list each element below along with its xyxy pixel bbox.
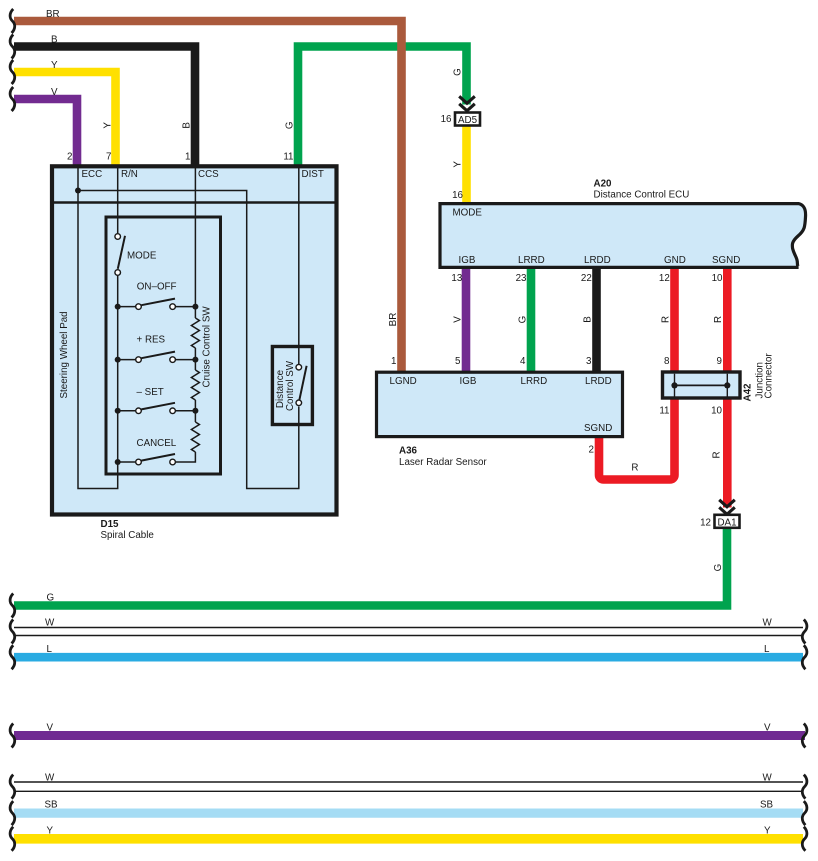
svg-text:W: W <box>45 773 55 784</box>
node junction dot ECC <box>75 188 81 194</box>
svg-text:LRDD: LRDD <box>585 376 612 387</box>
chevron arrows DA1 <box>719 500 735 515</box>
connector D15 steering wheel pad box <box>52 166 337 514</box>
connector AD5 box <box>455 113 480 126</box>
wire -SET to rail <box>176 410 196 412</box>
switch -SET contact left <box>118 410 139 412</box>
wire resistor3 to CANCEL contact <box>176 452 195 462</box>
svg-text:LRRD: LRRD <box>518 255 545 266</box>
wire R/N pin7 to MODE switch <box>117 166 119 233</box>
svg-text:G: G <box>713 564 724 572</box>
squiggle Y2 left <box>10 827 15 851</box>
svg-text:– SET: – SET <box>137 387 164 398</box>
wire rail segment <box>194 400 196 422</box>
A42 junction bus line <box>675 384 728 386</box>
svg-text:B: B <box>583 316 594 323</box>
squiggle L left <box>10 645 15 669</box>
connector DA1 box <box>715 515 740 528</box>
svg-text:BR: BR <box>388 313 399 327</box>
switch CANCEL contact right <box>170 459 176 465</box>
wire R ECU-SGND-to-A42 <box>723 268 732 373</box>
svg-text:CCS: CCS <box>198 169 219 180</box>
svg-text:L: L <box>764 644 770 655</box>
svg-text:Control SW: Control SW <box>285 360 296 411</box>
switch CANCEL dot left <box>115 459 121 465</box>
svg-text:D15: D15 <box>101 519 120 530</box>
svg-text:B: B <box>182 122 193 129</box>
wire Y lower <box>14 834 803 844</box>
svg-text:5: 5 <box>455 356 461 367</box>
A42 junction dot left <box>671 382 677 388</box>
cruise control SW box <box>106 217 221 474</box>
resistor R3 <box>191 422 199 452</box>
svg-text:AD5: AD5 <box>458 115 478 126</box>
wire B <box>14 47 195 167</box>
svg-text:A36: A36 <box>399 446 418 457</box>
switch +RES contact right <box>170 357 176 363</box>
switch ON-OFF dot left <box>115 304 121 310</box>
wire G ECU-to-A36 <box>527 268 536 373</box>
svg-text:DIST: DIST <box>302 169 324 180</box>
squiggle W1 right <box>802 620 807 644</box>
wire W lower line1 <box>14 781 803 783</box>
switch -SET lever <box>141 403 175 410</box>
svg-text:R: R <box>712 451 723 458</box>
distance control SW box <box>272 347 312 425</box>
switch ON-OFF contact right <box>170 304 176 310</box>
svg-text:Y: Y <box>51 60 58 71</box>
svg-text:G: G <box>47 593 55 604</box>
wire switch common rail <box>117 276 119 462</box>
squiggle V2 left <box>10 724 15 748</box>
squiggle W2 right <box>802 775 807 799</box>
wire L <box>14 653 803 662</box>
wire CCS pin1 to ON-OFF <box>194 166 196 318</box>
node ON-OFF rail dot <box>192 304 198 310</box>
wire SB <box>14 808 803 817</box>
svg-text:SB: SB <box>760 800 774 811</box>
svg-text:1: 1 <box>391 356 396 367</box>
wire R ECU-GND-to-A42 <box>670 268 679 373</box>
wire DIST pin11 internal <box>298 166 300 364</box>
wire ON-OFF to rail <box>176 306 196 308</box>
wire G DIST-to-AD5 <box>298 47 467 167</box>
svg-text:10: 10 <box>711 406 722 417</box>
node -SET rail dot <box>192 408 198 414</box>
switch CANCEL contact left <box>118 461 139 463</box>
svg-text:LRRD: LRRD <box>521 376 548 387</box>
switch DIST lever <box>299 366 306 401</box>
svg-text:W: W <box>763 618 773 629</box>
svg-text:V: V <box>51 87 58 98</box>
junction connector A42 box <box>663 372 741 398</box>
svg-text:2: 2 <box>67 152 72 163</box>
switch MODE contact bottom <box>115 270 121 276</box>
wire W upper line2 <box>14 635 803 637</box>
svg-text:Spiral Cable: Spiral Cable <box>101 530 155 541</box>
switch ON-OFF lever <box>141 299 175 306</box>
A42 junction dot right <box>724 382 730 388</box>
svg-text:2: 2 <box>589 445 594 456</box>
squiggle SB left <box>10 801 15 825</box>
wire V <box>14 99 77 166</box>
svg-text:Distance Control ECU: Distance Control ECU <box>594 190 690 201</box>
sensor A36 box <box>377 372 623 436</box>
svg-text:Y: Y <box>764 826 771 837</box>
svg-text:LRDD: LRDD <box>584 255 611 266</box>
squiggle B left <box>10 35 15 59</box>
squiggle V left <box>10 87 15 111</box>
svg-text:GND: GND <box>664 255 686 266</box>
svg-text:W: W <box>763 773 773 784</box>
chevron arrows AD5 <box>459 96 475 111</box>
A42 inner wire line pin8-11 <box>674 374 676 399</box>
node +RES rail dot <box>192 357 198 363</box>
svg-text:11: 11 <box>283 152 293 163</box>
wire W lower line2 <box>14 790 803 792</box>
pad terminal separator line <box>52 201 337 204</box>
svg-text:V: V <box>453 316 464 323</box>
svg-text:R: R <box>631 463 638 474</box>
ECU A20 box <box>440 204 806 268</box>
svg-text:4: 4 <box>520 356 526 367</box>
squiggle Y2 right <box>802 827 807 851</box>
wire V ECU-to-A36 <box>462 268 471 373</box>
svg-text:SB: SB <box>45 800 59 811</box>
svg-text:A20: A20 <box>594 179 613 190</box>
svg-text:12: 12 <box>659 273 670 284</box>
squiggle W2 left <box>10 775 15 799</box>
svg-text:Steering Wheel Pad: Steering Wheel Pad <box>59 311 70 398</box>
switch +RES contact left <box>118 359 139 361</box>
svg-text:B: B <box>51 35 58 46</box>
svg-text:Laser Radar Sensor: Laser Radar Sensor <box>399 457 487 468</box>
svg-text:8: 8 <box>664 356 670 367</box>
wire rail segment <box>194 348 196 370</box>
wire ECC branch to distance SW <box>78 191 299 489</box>
svg-text:Cruise Control SW: Cruise Control SW <box>202 306 213 388</box>
wire Y AD5-to-ECU <box>462 125 471 204</box>
squiggle V2 right <box>802 724 807 748</box>
svg-text:SGND: SGND <box>712 255 740 266</box>
svg-text:22: 22 <box>581 273 592 284</box>
squiggle G left <box>10 594 15 618</box>
resistor R1 <box>191 318 199 348</box>
switch -SET contact right <box>170 408 176 414</box>
svg-text:3: 3 <box>586 356 592 367</box>
svg-text:DA1: DA1 <box>717 517 736 528</box>
BOXES <box>52 96 806 528</box>
svg-text:9: 9 <box>717 356 722 367</box>
switch +RES lever <box>141 352 175 359</box>
squiggle BR left <box>10 9 15 33</box>
svg-text:R/N: R/N <box>121 169 138 180</box>
svg-text:MODE: MODE <box>127 251 157 262</box>
A42 inner wire line pin9-10 <box>726 374 728 399</box>
wire Y <box>14 72 116 166</box>
switch DIST contact bottom <box>296 400 302 406</box>
svg-text:23: 23 <box>516 273 527 284</box>
svg-text:G: G <box>285 121 296 129</box>
wire ECC pin2 internal <box>78 166 118 489</box>
svg-text:CANCEL: CANCEL <box>137 438 177 449</box>
svg-text:11: 11 <box>659 406 669 417</box>
svg-text:Y: Y <box>453 161 464 168</box>
svg-text:W: W <box>45 618 55 629</box>
squiggle W1 left <box>10 620 15 644</box>
svg-text:IGB: IGB <box>460 376 477 387</box>
switch +RES dot left <box>115 357 121 363</box>
wire +RES to rail <box>176 359 196 361</box>
svg-text:ECC: ECC <box>82 169 103 180</box>
svg-text:LGND: LGND <box>390 376 417 387</box>
wire B ECU-to-A36 <box>592 268 601 373</box>
svg-text:A42: A42 <box>743 383 754 402</box>
switch -SET dot left <box>115 408 121 414</box>
switch MODE lever <box>118 236 125 269</box>
svg-text:ON–OFF: ON–OFF <box>137 281 177 292</box>
svg-text:SGND: SGND <box>584 423 612 434</box>
wire G DA1-to-left <box>14 528 727 606</box>
svg-text:BR: BR <box>46 9 60 20</box>
wire R A42-pin10-to-DA1 <box>723 397 732 508</box>
svg-text:IGB: IGB <box>459 255 476 266</box>
svg-text:Y: Y <box>103 122 114 129</box>
svg-text:1: 1 <box>185 152 190 163</box>
switch ON-OFF contact left <box>118 306 139 308</box>
svg-text:V: V <box>47 723 54 734</box>
svg-text:V: V <box>764 723 771 734</box>
squiggle Y left <box>10 60 15 84</box>
svg-text:R: R <box>713 316 724 323</box>
svg-text:L: L <box>47 644 53 655</box>
svg-text:Y: Y <box>47 826 54 837</box>
svg-text:7: 7 <box>106 152 111 163</box>
wire W upper line1 <box>14 627 803 629</box>
svg-text:+ RES: + RES <box>137 335 166 346</box>
svg-text:Connector: Connector <box>764 353 775 399</box>
squiggle L right <box>802 645 807 669</box>
wire V lower <box>14 731 805 740</box>
switch MODE contact top <box>115 234 121 240</box>
svg-text:MODE: MODE <box>453 208 483 219</box>
wire BR <box>14 21 402 372</box>
INNER <box>75 166 312 489</box>
svg-text:R: R <box>661 316 672 323</box>
wire R A36-SGND-to-A42-pin11 <box>599 397 675 480</box>
squiggle SB right <box>802 801 807 825</box>
svg-text:12: 12 <box>700 518 711 529</box>
switch CANCEL lever <box>141 454 175 461</box>
switch DIST contact top <box>296 364 302 370</box>
resistor R2 <box>191 370 199 400</box>
svg-text:16: 16 <box>452 190 463 201</box>
svg-text:G: G <box>453 68 464 76</box>
svg-text:16: 16 <box>441 114 452 125</box>
svg-text:13: 13 <box>451 273 462 284</box>
svg-text:10: 10 <box>712 273 723 284</box>
svg-text:G: G <box>518 316 529 324</box>
